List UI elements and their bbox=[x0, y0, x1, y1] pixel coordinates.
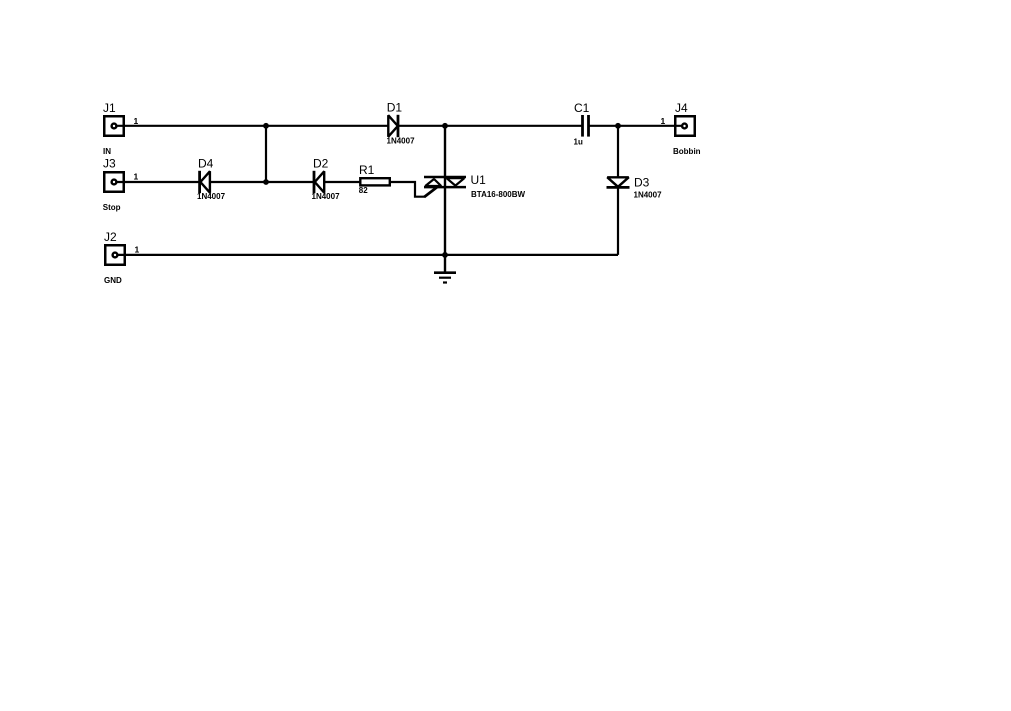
wire: D3 cathode down to GND rail bbox=[617, 187, 619, 255]
wire net IN: J1 to D1 anode bbox=[116, 125, 388, 127]
junction dot top rail x=445 bbox=[442, 123, 448, 129]
svg-text:J3: J3 bbox=[103, 157, 116, 171]
svg-text:C1: C1 bbox=[574, 101, 590, 115]
svg-text:D3: D3 bbox=[634, 176, 650, 190]
svg-text:J1: J1 bbox=[103, 101, 116, 115]
triac U1 bbox=[424, 177, 466, 187]
connector J3 bbox=[104, 172, 124, 192]
wire net IN: C1 to J4 bbox=[590, 125, 685, 127]
svg-text:1N4007: 1N4007 bbox=[197, 192, 226, 201]
diode D1 bbox=[388, 115, 398, 137]
svg-text:1: 1 bbox=[134, 116, 139, 126]
svg-text:Stop: Stop bbox=[103, 203, 121, 212]
svg-text:1: 1 bbox=[661, 116, 666, 126]
wire gate diagonal into U1 bbox=[424, 187, 437, 197]
svg-text:U1: U1 bbox=[471, 173, 487, 187]
wire: D4 anode to D2 cathode bbox=[210, 181, 314, 183]
svg-text:R1: R1 bbox=[359, 163, 375, 177]
junction dot top rail x=618 bbox=[615, 123, 621, 129]
svg-text:82: 82 bbox=[359, 186, 368, 195]
junction dot GND rail x=445 bbox=[442, 252, 448, 258]
capacitor C1 bbox=[583, 115, 589, 137]
ground symbol bbox=[434, 273, 456, 283]
wire net IN: D1 cathode to C1 bbox=[399, 125, 582, 127]
svg-text:D4: D4 bbox=[198, 157, 214, 171]
wire net GND: J2 to corner below D3 bbox=[116, 254, 618, 256]
resistor R1 bbox=[360, 178, 390, 185]
wire: U1 MT2/MT1 vertical through triac to ground bbox=[444, 126, 446, 272]
svg-text:GND: GND bbox=[104, 276, 122, 285]
svg-text:1N4007: 1N4007 bbox=[634, 191, 663, 200]
connector J2 bbox=[105, 245, 125, 265]
wire: R1 to U1 gate bbox=[389, 182, 425, 197]
svg-text:1N4007: 1N4007 bbox=[387, 137, 416, 146]
diode D3 bbox=[607, 177, 630, 187]
svg-text:D1: D1 bbox=[387, 101, 403, 115]
connector J1 bbox=[104, 116, 124, 136]
wire net Stop: J3 to D4 cathode bbox=[116, 181, 200, 183]
svg-text:1N4007: 1N4007 bbox=[312, 192, 341, 201]
svg-text:D2: D2 bbox=[313, 157, 329, 171]
svg-text:Bobbin: Bobbin bbox=[673, 147, 701, 156]
wire: D3 anode up to top rail bbox=[617, 126, 619, 177]
wire: D2 anode to R1 bbox=[324, 181, 361, 183]
svg-text:1: 1 bbox=[134, 172, 139, 182]
svg-text:J4: J4 bbox=[675, 101, 688, 115]
wire vertical: top rail to Stop rail at x=266 bbox=[265, 126, 267, 182]
diode D2 bbox=[314, 171, 324, 193]
svg-text:1: 1 bbox=[135, 245, 140, 255]
svg-text:BTA16-800BW: BTA16-800BW bbox=[471, 190, 526, 199]
svg-text:J2: J2 bbox=[104, 230, 117, 244]
junction dot Stop rail x=266 bbox=[263, 179, 269, 185]
junction dot top rail x=266 bbox=[263, 123, 269, 129]
connector J4 bbox=[675, 116, 695, 136]
diode D4 bbox=[200, 171, 210, 193]
svg-text:1u: 1u bbox=[574, 137, 583, 146]
svg-text:IN: IN bbox=[103, 147, 111, 156]
